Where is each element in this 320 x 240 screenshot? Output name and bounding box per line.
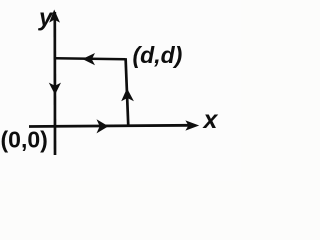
y-axis — [53, 12, 56, 155]
svg-text:x: x — [202, 106, 219, 134]
svg-text:(0,0): (0,0) — [1, 127, 48, 153]
svg-text:(d,d): (d,d) — [133, 42, 183, 68]
arrow up on vertical segment — [121, 88, 134, 101]
wire: right vertical segment of square path — [126, 58, 129, 126]
arrow right on x-axis (mid) — [97, 119, 109, 133]
x-axis — [29, 125, 189, 126]
arrow left on top segment — [82, 53, 95, 65]
arrow down on y-axis segment — [49, 83, 61, 95]
svg-text:y: y — [38, 5, 54, 32]
y-axis arrowhead (up) — [49, 10, 60, 23]
wire: top segment of square path — [55, 58, 126, 59]
x-axis arrowhead (right) — [185, 120, 199, 130]
